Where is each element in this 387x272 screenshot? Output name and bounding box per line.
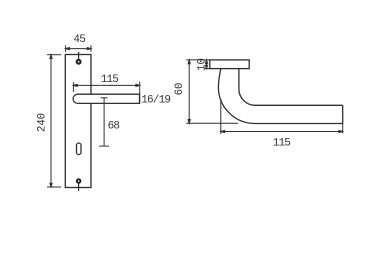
svg-text:16/19: 16/19 bbox=[141, 94, 170, 106]
dimension 10 (rose thickness) bbox=[204, 60, 210, 69]
keyhole bbox=[77, 143, 82, 155]
lever front view (stadium shape over plate) bbox=[73, 94, 139, 103]
screw bottom bbox=[76, 178, 82, 184]
inner (right/top) profile bbox=[239, 69, 343, 106]
backplate outline bbox=[65, 55, 91, 188]
rose side view rectangle bbox=[210, 60, 249, 69]
screw bottom centerline tick bbox=[78, 184, 80, 191]
dimension 240 (plate height) bbox=[47, 55, 61, 187]
screw top centerline tick bbox=[78, 52, 80, 59]
dimension 115 (lever reach side view) bbox=[221, 100, 343, 135]
svg-text:68: 68 bbox=[108, 121, 120, 133]
handle neck + lever side profile bbox=[218, 69, 342, 124]
lever right end bbox=[342, 105, 344, 123]
outer (left/bottom) profile bbox=[218, 69, 342, 124]
svg-text:115: 115 bbox=[273, 138, 291, 150]
screw top bbox=[76, 59, 82, 65]
svg-text:240: 240 bbox=[37, 113, 49, 132]
dimension 45 (plate width) bbox=[66, 45, 91, 51]
svg-text:60: 60 bbox=[174, 83, 186, 96]
dimension 60 (handle height) bbox=[186, 60, 238, 123]
svg-text:115: 115 bbox=[101, 74, 119, 86]
dimension 115 lever front bbox=[73, 82, 139, 104]
svg-text:45: 45 bbox=[73, 34, 85, 46]
dimension 68 (lever to keyhole) bbox=[99, 98, 109, 146]
